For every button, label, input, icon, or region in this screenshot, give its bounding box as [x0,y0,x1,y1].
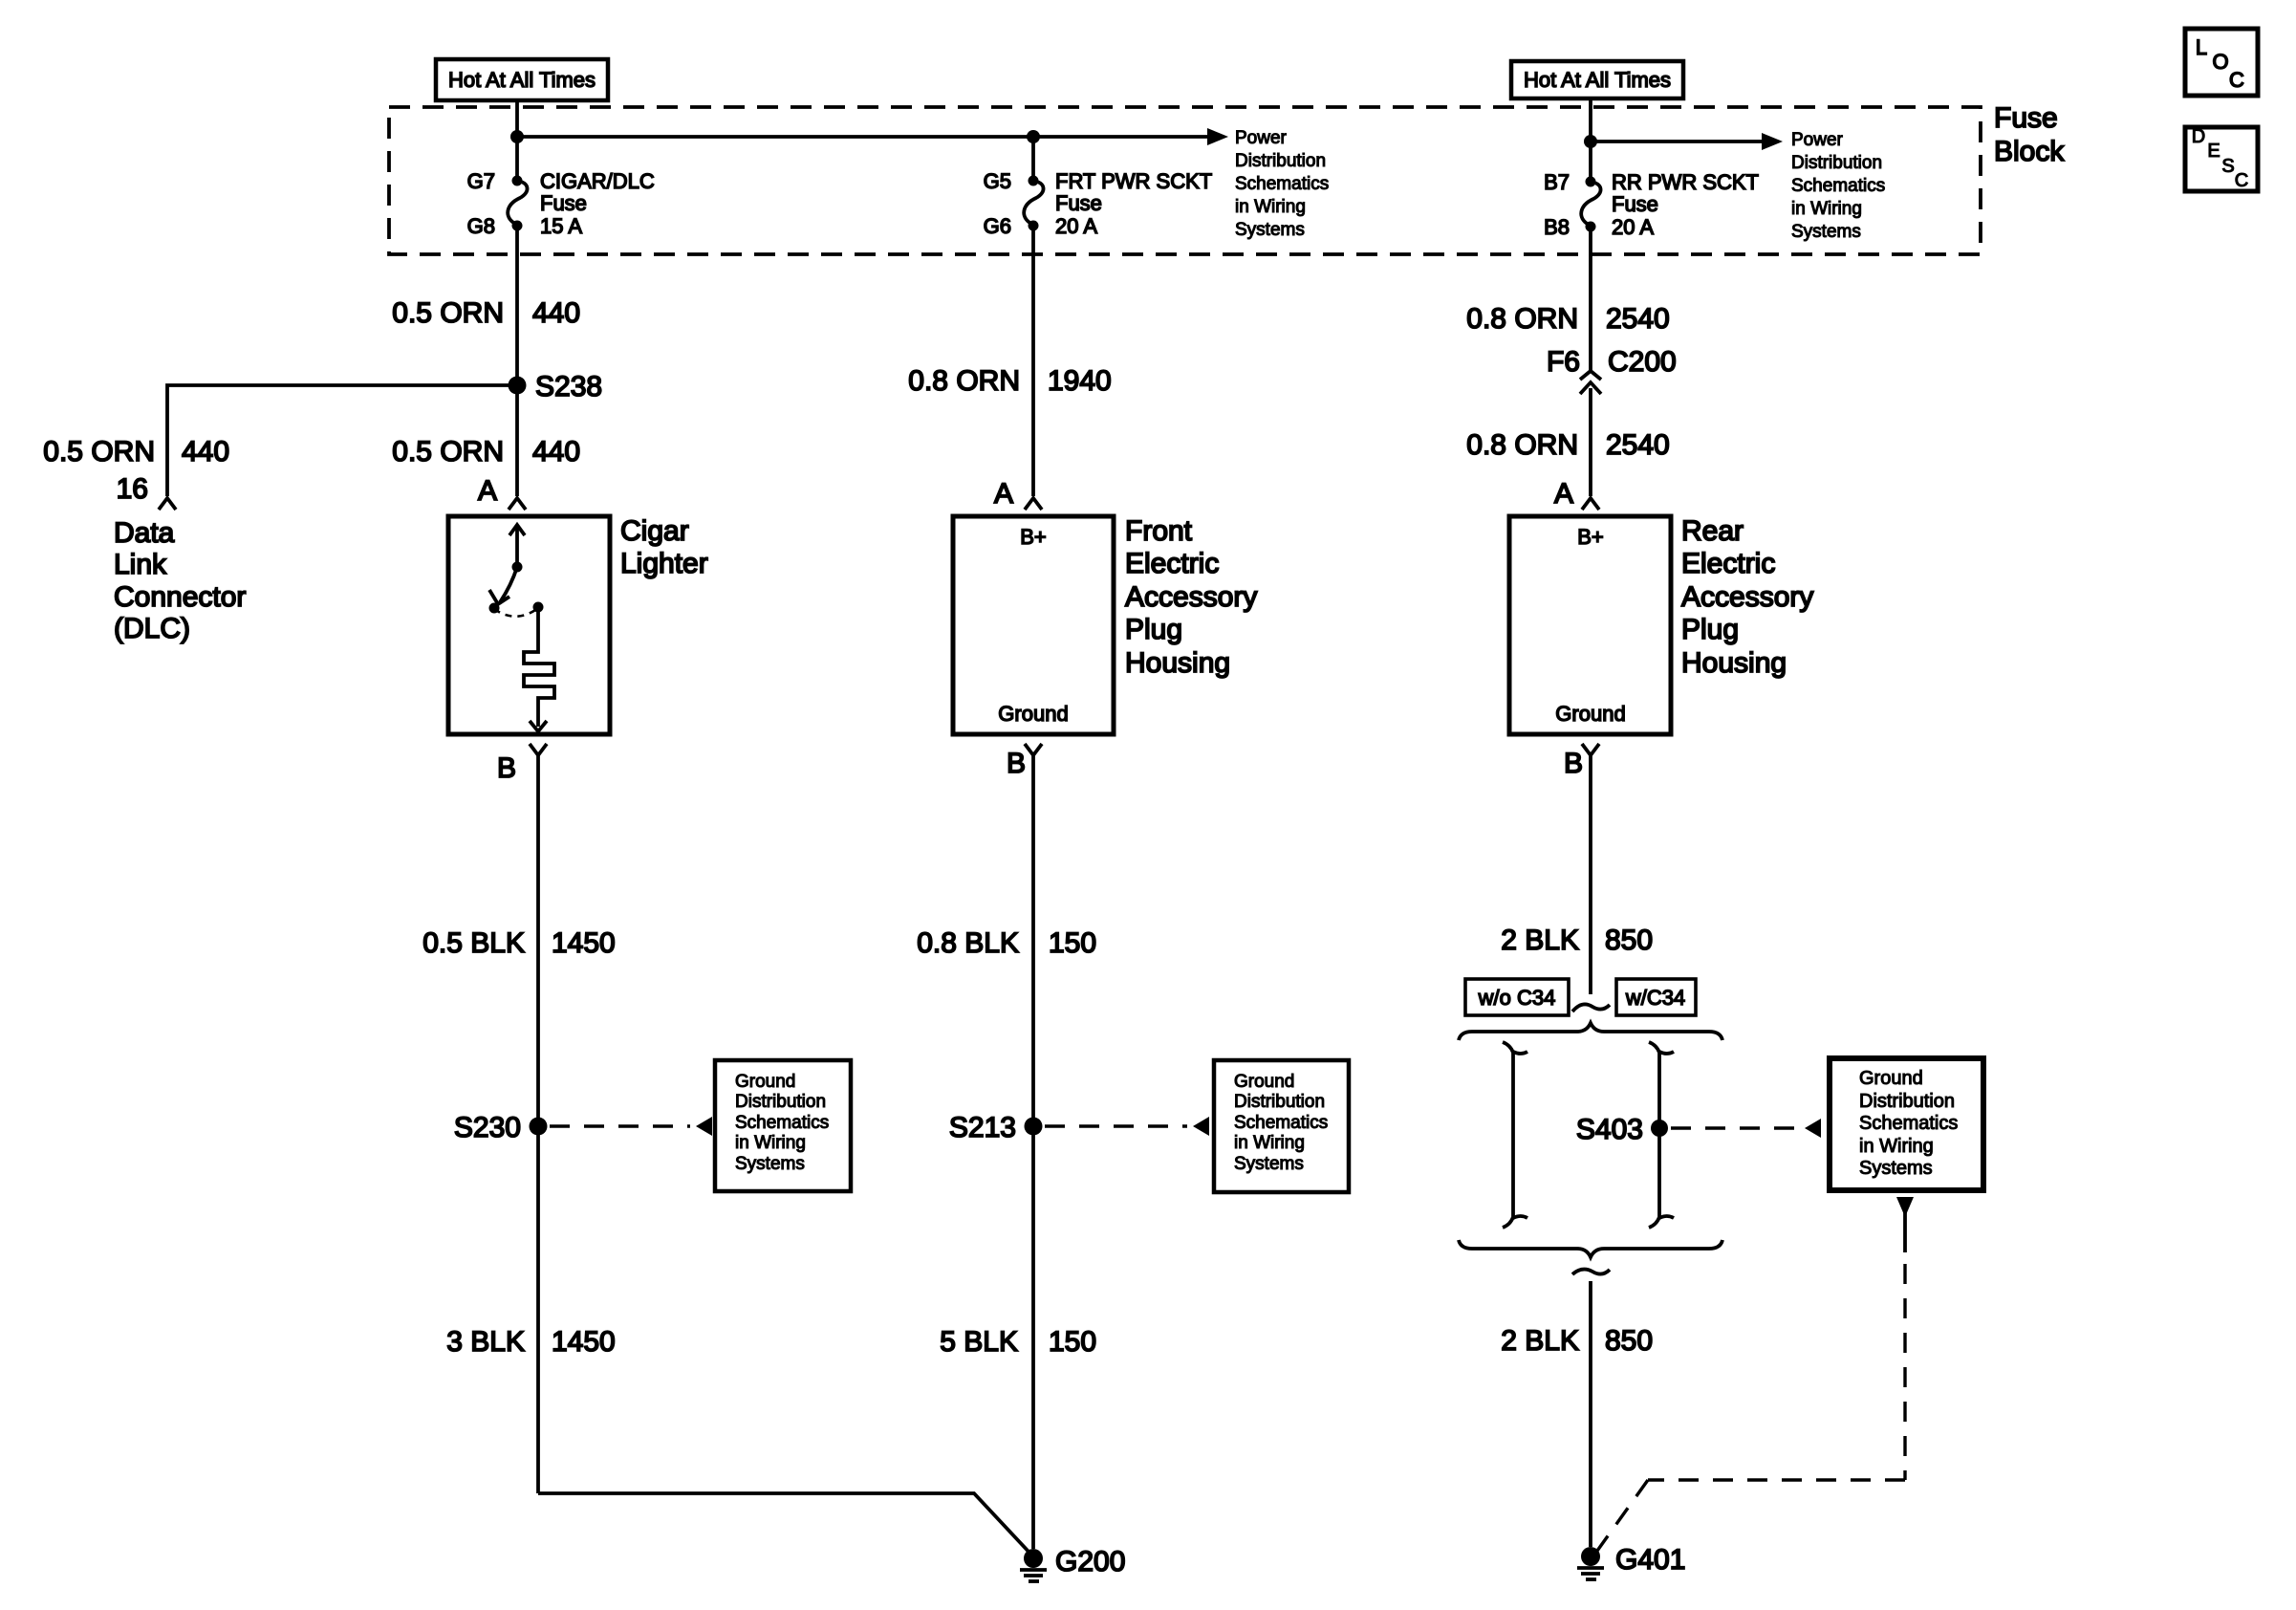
arrow to power distribution (left) [1207,128,1228,145]
element arrow down [530,721,547,731]
svg-text:w/o C34: w/o C34 [1478,986,1556,1010]
svg-text:3 BLK: 3 BLK [446,1326,525,1358]
svg-text:15 A: 15 A [540,214,582,238]
svg-text:Ground: Ground [735,1072,795,1092]
svg-text:B: B [1564,748,1583,779]
svg-text:0.8 ORN: 0.8 ORN [908,365,1020,397]
splice S403 [1651,1120,1668,1137]
svg-text:Plug: Plug [1681,614,1739,645]
svg-text:G401: G401 [1615,1544,1685,1576]
dashed arrow below box 3 [1896,1197,1914,1217]
dashed route to G401 [1648,1478,1905,1481]
svg-text:850: 850 [1605,925,1653,956]
svg-text:Schematics: Schematics [1859,1113,1958,1134]
svg-text:0.5 ORN: 0.5 ORN [392,436,504,468]
svg-text:20 A: 20 A [1612,215,1654,239]
svg-text:5 BLK: 5 BLK [940,1326,1018,1358]
w/C34 box [1616,979,1696,1015]
svg-text:Power: Power [1791,130,1844,150]
svg-text:Systems: Systems [735,1154,805,1174]
svg-text:O: O [2212,50,2228,74]
hook below brace [1572,1270,1610,1274]
svg-text:C: C [2229,68,2244,92]
LOC box [2185,29,2258,96]
svg-text:0.5 BLK: 0.5 BLK [422,927,525,959]
svg-text:Ground: Ground [1234,1072,1294,1092]
svg-text:Accessory: Accessory [1125,581,1257,613]
svg-text:Schematics: Schematics [1791,176,1885,196]
svg-text:B: B [1007,748,1026,779]
wire B8 to C200 [1589,227,1592,371]
svg-text:Block: Block [1994,136,2065,167]
svg-text:F6: F6 [1547,346,1580,378]
svg-text:Ground: Ground [998,702,1068,726]
svg-text:Fuse: Fuse [1612,192,1658,216]
svg-text:2 BLK: 2 BLK [1501,1325,1579,1357]
svg-text:Distribution: Distribution [1791,153,1882,173]
svg-text:440: 440 [182,436,229,468]
svg-text:Hot At All Times: Hot At All Times [1524,68,1671,92]
svg-text:CIGAR/DLC: CIGAR/DLC [540,169,655,193]
svg-text:S403: S403 [1576,1114,1643,1145]
wire S238 to cigar lighter [515,385,519,496]
svg-text:G6: G6 [984,214,1011,238]
svg-text:Ground: Ground [1555,702,1625,726]
svg-text:0.5 ORN: 0.5 ORN [392,297,504,329]
svg-text:D: D [2192,126,2205,147]
switch arrow up [515,526,519,567]
svg-text:Electric: Electric [1681,548,1775,579]
connector fork A (col3) [1582,498,1599,510]
svg-text:S: S [2221,156,2234,177]
wire branch to DLC [167,385,517,496]
front electric accessory plug housing box [953,516,1114,734]
connector fork DLC [159,498,176,510]
svg-text:B7: B7 [1544,170,1570,194]
ground distribution box 3 [1830,1058,1983,1190]
svg-text:0.8 BLK: 0.8 BLK [917,927,1019,959]
wire from hot box 2 [1589,98,1592,182]
alternative bar left [1503,1042,1513,1228]
svg-text:0.5 ORN: 0.5 ORN [43,436,155,468]
svg-text:Housing: Housing [1681,647,1787,679]
svg-text:Schematics: Schematics [1235,174,1329,194]
bus wire right [1591,140,1763,143]
svg-text:2 BLK: 2 BLK [1501,925,1579,956]
svg-text:Housing: Housing [1125,647,1230,679]
svg-text:Systems: Systems [1859,1158,1933,1179]
hook at wire end [1572,1004,1610,1012]
svg-text:2540: 2540 [1606,303,1670,335]
svg-text:Systems: Systems [1235,220,1305,240]
svg-text:150: 150 [1049,1326,1096,1358]
svg-text:L: L [2196,35,2207,59]
svg-text:in Wiring: in Wiring [1235,197,1306,217]
svg-text:C: C [2235,170,2248,191]
svg-text:0.8 ORN: 0.8 ORN [1466,429,1578,461]
dashed reference line S213 [1045,1124,1187,1127]
arrow to power distribution (right) [1762,133,1783,150]
svg-text:20 A: 20 A [1055,214,1097,238]
svg-text:150: 150 [1049,927,1096,959]
cigar lighter box [448,516,610,734]
wire B to S230 [536,755,540,1493]
ground G200 [1024,1549,1043,1568]
node bus2-col3 [1584,135,1597,148]
svg-text:Cigar: Cigar [620,515,689,547]
svg-text:Ground: Ground [1859,1068,1923,1089]
ground G401 [1581,1547,1600,1566]
svg-text:Link: Link [114,549,167,580]
svg-text:Rear: Rear [1681,515,1744,547]
w/o C34 box [1465,979,1569,1015]
wire to G401 [1589,1281,1592,1547]
fuse RR PWR SCKT 20A [1586,177,1596,187]
options brace bottom [1459,1240,1722,1257]
splice S213 [1025,1118,1043,1136]
svg-text:Data: Data [114,517,175,549]
svg-text:Distribution: Distribution [735,1092,826,1112]
hot-at-all-times box 1 [436,59,608,100]
node bus1-col1 [510,130,524,143]
svg-text:B8: B8 [1544,215,1570,239]
svg-text:2540: 2540 [1606,429,1670,461]
ground distribution box 2 [1214,1060,1349,1192]
svg-text:Plug: Plug [1125,614,1182,645]
svg-text:Connector: Connector [114,581,246,613]
rear electric accessory plug housing box [1509,516,1671,734]
svg-text:C200: C200 [1608,346,1677,378]
svg-text:1450: 1450 [552,1326,616,1358]
svg-text:B: B [497,752,516,784]
svg-text:G8: G8 [467,214,495,238]
svg-text:A: A [478,475,497,507]
svg-text:440: 440 [532,297,580,329]
svg-text:S213: S213 [949,1112,1016,1143]
svg-text:A: A [994,478,1013,510]
svg-text:(DLC): (DLC) [114,613,190,644]
switch arm [500,567,517,602]
wire G8 to S238 [515,226,519,385]
svg-text:Accessory: Accessory [1681,581,1813,613]
wire to G200 [538,1493,1030,1554]
svg-text:A: A [1554,478,1573,510]
ground distribution box 1 [715,1060,851,1191]
svg-text:S230: S230 [454,1112,521,1143]
svg-text:440: 440 [532,436,580,468]
svg-text:Systems: Systems [1234,1154,1304,1174]
svg-text:1940: 1940 [1048,365,1112,397]
options brace top [1459,1023,1722,1040]
dashed reference line S230 [550,1124,690,1127]
bus wire left [517,135,1208,139]
svg-text:B+: B+ [1577,525,1604,549]
svg-text:Fuse: Fuse [1994,102,2058,134]
fuse block (dashed outline) [389,107,1981,254]
svg-text:Front: Front [1125,515,1193,547]
fuse FRT PWR SCKT 20A [1031,137,1035,181]
svg-text:Schematics: Schematics [1234,1113,1328,1133]
connector fork B (col1) [530,744,547,755]
svg-text:Hot At All Times: Hot At All Times [448,68,596,92]
svg-text:Electric: Electric [1125,548,1219,579]
svg-text:in Wiring: in Wiring [735,1133,806,1153]
wire from hot box 1 [515,100,519,181]
connector fork B (col3) [1582,744,1599,755]
svg-text:S238: S238 [535,371,602,402]
svg-text:FRT PWR SCKT: FRT PWR SCKT [1055,169,1212,193]
svg-text:in Wiring: in Wiring [1859,1136,1934,1157]
connector fork A (col1) [509,498,526,510]
alternative bar right [1649,1042,1659,1228]
svg-text:w/C34: w/C34 [1625,986,1685,1010]
svg-text:1450: 1450 [552,927,616,959]
svg-text:Lighter: Lighter [620,548,708,579]
svg-text:RR PWR SCKT: RR PWR SCKT [1612,170,1759,194]
wire G6 to front plug [1031,226,1035,496]
dashed reference line S403 [1671,1126,1799,1129]
heating element [524,607,554,727]
fuse CIGAR/DLC 15A [512,176,523,186]
splice S230 [530,1118,548,1136]
switch throw arc (dashed) [494,608,538,617]
wire B to options brace [1589,755,1592,994]
inline connector C200 [1580,371,1601,380]
svg-text:Fuse: Fuse [1055,191,1102,215]
DESC box [2185,127,2258,191]
svg-text:Fuse: Fuse [540,191,587,215]
svg-text:B+: B+ [1020,525,1047,549]
wire C200 to rear plug [1589,388,1592,496]
svg-text:G200: G200 [1055,1546,1125,1577]
node bus1-col2 [1027,130,1040,143]
svg-text:Schematics: Schematics [735,1113,829,1133]
svg-text:0.8 ORN: 0.8 ORN [1466,303,1578,335]
hot-at-all-times box 2 [1511,61,1683,98]
connector fork A (col2) [1025,498,1042,510]
svg-text:Distribution: Distribution [1859,1091,1955,1112]
svg-text:in Wiring: in Wiring [1791,199,1862,219]
svg-text:Power: Power [1235,128,1288,148]
svg-text:G5: G5 [984,169,1011,193]
wire B to G200 [1031,755,1035,1549]
svg-text:16: 16 [117,473,148,505]
svg-text:G7: G7 [467,169,495,193]
svg-text:Systems: Systems [1791,222,1861,242]
svg-text:Distribution: Distribution [1235,151,1326,171]
connector fork B (col2) [1025,744,1042,755]
svg-text:in Wiring: in Wiring [1234,1133,1305,1153]
splice S238 [509,377,527,395]
svg-text:Distribution: Distribution [1234,1092,1325,1112]
svg-text:850: 850 [1605,1325,1653,1357]
svg-text:E: E [2207,141,2220,162]
